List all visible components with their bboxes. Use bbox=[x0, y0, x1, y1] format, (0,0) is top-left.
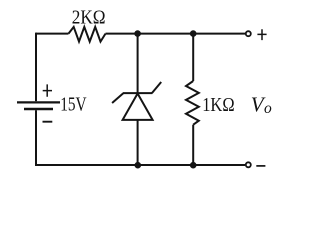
resistor 1KΩ (load, vertical zigzag) bbox=[186, 81, 199, 125]
battery - polarity mark bbox=[43, 121, 53, 123]
wire zener branch lower bbox=[137, 120, 139, 165]
svg-text:15V: 15V bbox=[60, 94, 87, 116]
resistor 2KΩ (series, zigzag) bbox=[69, 27, 106, 42]
wire top horizontal to output terminal bbox=[106, 33, 246, 35]
wire left rail lower (source - side) bbox=[35, 110, 37, 166]
battery + polarity mark bbox=[43, 84, 52, 96]
output - terminal mark bbox=[256, 165, 265, 167]
wire top-left horizontal segment bbox=[36, 33, 69, 35]
junction node: zener top bbox=[134, 30, 141, 37]
battery 15V positive plate (long) bbox=[17, 101, 60, 103]
zener diode cathode left bent tail bbox=[112, 93, 123, 103]
wire bottom horizontal bbox=[36, 164, 245, 166]
junction node: 1KΩ top bbox=[190, 30, 197, 37]
zener diode anode triangle bbox=[123, 94, 153, 120]
junction node: 1KΩ bottom bbox=[190, 162, 197, 169]
output + terminal mark bbox=[257, 29, 266, 40]
svg-text:1KΩ: 1KΩ bbox=[202, 94, 234, 116]
battery 15V negative plate (short) bbox=[24, 108, 53, 111]
zener diode cathode right bent tail bbox=[152, 82, 161, 93]
junction node: zener bottom bbox=[135, 162, 142, 169]
svg-text:Vo: Vo bbox=[251, 93, 272, 118]
wire 1KΩ branch lower bbox=[192, 125, 194, 165]
wire zener branch upper bbox=[137, 34, 139, 94]
output terminal − (open circle) bbox=[246, 162, 251, 167]
wire 1KΩ branch upper bbox=[192, 34, 194, 81]
zener diode cathode bar bbox=[123, 92, 152, 94]
wire left rail upper (source + side) bbox=[35, 33, 37, 102]
output terminal + (open circle) bbox=[246, 31, 251, 36]
svg-text:2KΩ: 2KΩ bbox=[72, 6, 106, 28]
